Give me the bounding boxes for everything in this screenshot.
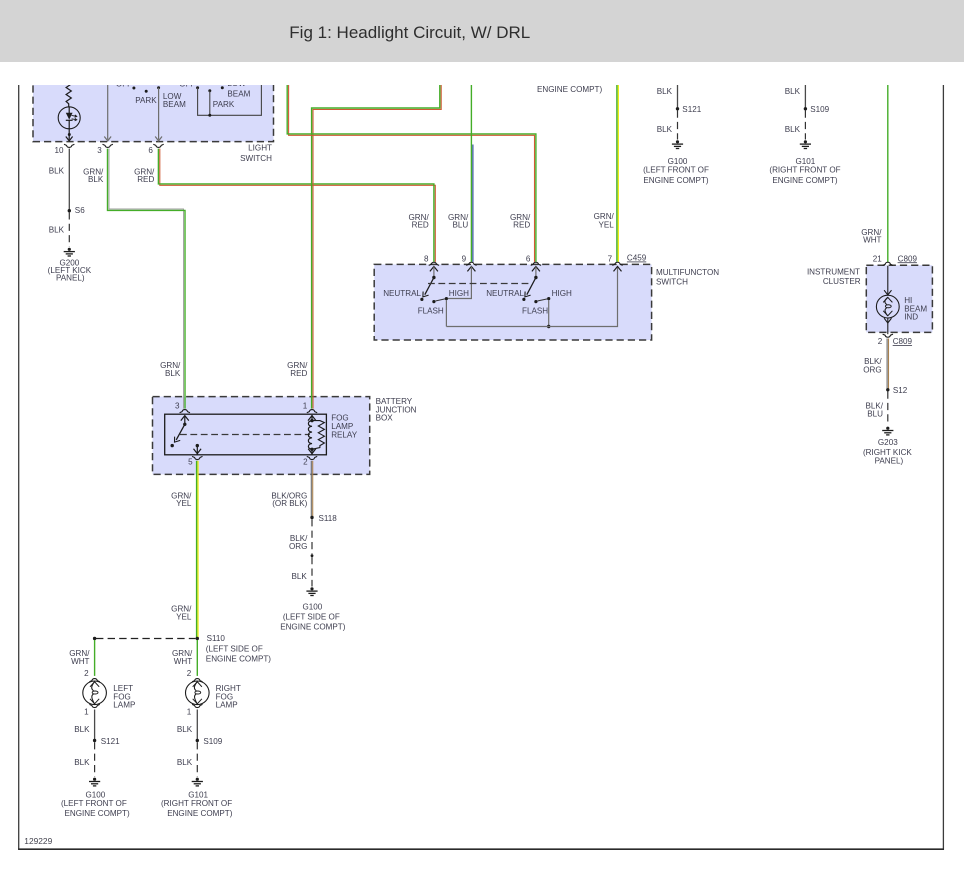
wire BLK dashed to G101 (196, 742, 198, 777)
pin 9 internal line to HIGH contact (467, 266, 475, 271)
svg-text:S118: S118 (319, 514, 338, 523)
svg-text:PANEL): PANEL) (875, 457, 904, 466)
splice S110 (196, 637, 199, 640)
svg-text:BEAM: BEAM (227, 90, 250, 99)
svg-text:ENGINE COMPT): ENGINE COMPT) (206, 654, 272, 663)
wire GRN/WHT to left fog lamp (94, 640, 96, 676)
relay output to pin 5 (196, 446, 198, 455)
wire BLK/ORG from instrument cluster pin 2 (886, 339, 888, 390)
wire BLK from left fog lamp (94, 710, 96, 740)
frame left border (18, 85, 20, 850)
multifunction switch pin 9 (466, 262, 476, 265)
splice S109 top (804, 107, 807, 110)
svg-text:PANEL): PANEL) (56, 273, 85, 282)
svg-text:1: 1 (303, 401, 308, 410)
svg-text:G101: G101 (795, 157, 815, 166)
svg-text:1: 1 (187, 707, 192, 716)
svg-text:PARK: PARK (135, 96, 157, 105)
svg-text:NEUTRAL: NEUTRAL (486, 289, 524, 298)
svg-text:21: 21 (873, 254, 883, 263)
svg-text:FLASH: FLASH (522, 306, 548, 315)
svg-text:SWITCH: SWITCH (656, 277, 688, 286)
svg-text:2: 2 (878, 337, 883, 346)
svg-text:ORG: ORG (289, 542, 307, 551)
svg-text:RED: RED (513, 221, 530, 230)
svg-text:2: 2 (303, 457, 308, 466)
light switch box (33, 78, 274, 142)
ground G100 (89, 778, 100, 786)
svg-text:CLUSTER: CLUSTER (823, 277, 861, 286)
multifunction switch pin 8 (429, 262, 439, 265)
battery junction box pin 2 (307, 456, 317, 459)
dimmer switch 8 internal (430, 266, 438, 271)
wire GRN/RED from top to battery junction box pin 1 (313, 78, 441, 409)
svg-text:BLK: BLK (165, 369, 181, 378)
svg-text:S121: S121 (101, 737, 120, 746)
svg-text:BLU: BLU (452, 221, 468, 230)
svg-text:ENGINE COMPT): ENGINE COMPT) (643, 176, 709, 185)
svg-text:C809: C809 (898, 254, 918, 263)
svg-text:3: 3 (175, 401, 180, 410)
svg-text:PARK: PARK (213, 100, 235, 109)
dashed jumper to left fog lamp branch (96, 638, 196, 640)
dimmer switch 6 internal (532, 266, 540, 271)
frame bottom border (18, 848, 944, 850)
svg-text:ENGINE COMPT): ENGINE COMPT) (64, 809, 130, 818)
svg-text:G100: G100 (302, 602, 322, 611)
svg-text:5: 5 (188, 457, 193, 466)
multifunction switch pin 6 (531, 262, 541, 265)
svg-text:(OR BLK): (OR BLK) (272, 499, 307, 508)
svg-text:C809: C809 (893, 337, 913, 346)
svg-text:BLU: BLU (867, 410, 883, 419)
svg-text:(LEFT SIDE OF: (LEFT SIDE OF (283, 613, 340, 622)
ground G101 (192, 778, 203, 786)
wire BLK/ORG dashed (311, 519, 313, 554)
high contact drop switch 8 (445, 300, 447, 326)
relay mechanical link dashed (180, 434, 310, 436)
svg-text:(RIGHT FRONT OF: (RIGHT FRONT OF (161, 799, 232, 808)
relay contact dots (171, 444, 174, 447)
splice S12 (886, 388, 889, 391)
light switch pin 3 internal line (107, 78, 109, 140)
svg-text:HIGH: HIGH (449, 289, 469, 298)
left fog lamp (83, 681, 107, 705)
splice S118 (310, 516, 313, 519)
svg-text:INSTRUMENT: INSTRUMENT (807, 267, 860, 276)
svg-text:LAMP: LAMP (331, 422, 353, 431)
instrument cluster box (866, 265, 932, 332)
svg-text:IND: IND (904, 313, 918, 322)
ground G100 left front engine compt (672, 140, 683, 148)
light switch pin 6 (153, 144, 163, 147)
svg-text:129229: 129229 (24, 836, 52, 846)
arrow to pin 10 (68, 135, 70, 140)
svg-text:YEL: YEL (598, 221, 614, 230)
wire GRN/WHT to right fog lamp (196, 640, 198, 676)
svg-text:7: 7 (608, 254, 613, 263)
svg-text:2: 2 (84, 669, 89, 678)
svg-text:LIGHT: LIGHT (248, 143, 272, 152)
svg-text:BLK: BLK (291, 572, 307, 581)
light switch pin 10 (64, 144, 74, 147)
high beam bus to pin 7 (446, 266, 617, 326)
multifunction switch pin 7 (612, 262, 622, 265)
right fog lamp (186, 681, 210, 705)
svg-text:S12: S12 (893, 386, 908, 395)
wire BLK dashed to ground (311, 557, 313, 586)
multifunction switch box (374, 264, 651, 340)
svg-text:3: 3 (97, 146, 102, 155)
wire GRN/YEL from relay pin 5 to S110 (197, 461, 199, 639)
wire BLK from light switch pin 10 (68, 149, 70, 210)
battery junction box pin 1 (307, 410, 317, 413)
wire GRN/RED from top to multifunction switch pin 6 (289, 78, 535, 262)
svg-text:LAMP: LAMP (216, 701, 238, 710)
svg-text:BLK: BLK (74, 758, 90, 767)
illumination LED lamp in light switch (58, 107, 80, 129)
resistor in light switch (66, 78, 71, 107)
relay resistor (312, 421, 324, 450)
wire BLK from right fog lamp (196, 710, 198, 740)
wire GRN/BLU to multifunction switch pin 9 (472, 145, 474, 262)
svg-text:9: 9 (462, 254, 467, 263)
wire BLK to S109 top (804, 78, 806, 108)
wire BLK dashed to G101 top (804, 111, 806, 140)
svg-text:BLK: BLK (177, 758, 193, 767)
svg-text:FLASH: FLASH (418, 306, 444, 315)
svg-text:BLK: BLK (88, 175, 104, 184)
svg-text:HIGH: HIGH (552, 289, 572, 298)
wire GRN/BLK from light switch pin 3 to battery junction box pin 3 (109, 149, 184, 409)
relay coil (308, 416, 316, 421)
svg-text:RED: RED (412, 221, 429, 230)
svg-text:YEL: YEL (176, 612, 192, 621)
battery junction box (153, 397, 370, 475)
battery junction box pin 3 (180, 410, 190, 413)
svg-text:RED: RED (137, 175, 154, 184)
svg-text:BLK: BLK (657, 125, 673, 134)
svg-text:WHT: WHT (71, 657, 89, 666)
svg-text:ORG: ORG (863, 365, 881, 374)
svg-text:(LEFT SIDE OF: (LEFT SIDE OF (206, 645, 263, 654)
svg-text:Fig 1: Headlight Circuit, W/ D: Fig 1: Headlight Circuit, W/ DRL (289, 23, 530, 42)
svg-text:BLK: BLK (49, 226, 65, 235)
svg-text:G100: G100 (668, 157, 688, 166)
mechanical link dashed (428, 283, 529, 285)
svg-text:(RIGHT FRONT OF: (RIGHT FRONT OF (769, 166, 840, 175)
svg-text:2: 2 (187, 669, 192, 678)
svg-text:ENGINE COMPT): ENGINE COMPT) (537, 85, 603, 94)
splice S6 (68, 209, 71, 212)
instrument cluster pin 2 (883, 334, 893, 337)
svg-text:ENGINE COMPT): ENGINE COMPT) (280, 622, 346, 631)
svg-text:BLK: BLK (49, 166, 65, 175)
svg-text:(LEFT FRONT OF: (LEFT FRONT OF (643, 166, 709, 175)
svg-text:S121: S121 (682, 105, 701, 114)
svg-text:RELAY: RELAY (331, 431, 358, 440)
high contact drop switch 6 (548, 300, 550, 326)
ground G100 left side engine compt (306, 587, 317, 595)
svg-text:BLK: BLK (657, 87, 673, 96)
splice S121 top (676, 107, 679, 110)
ground G200 (64, 248, 75, 256)
svg-text:1: 1 (84, 707, 89, 716)
svg-text:WHT: WHT (174, 657, 192, 666)
svg-text:S109: S109 (203, 737, 222, 746)
right fog lamp pin 1 (192, 704, 202, 707)
fog lamp relay box (165, 414, 327, 455)
svg-text:S6: S6 (75, 206, 85, 215)
svg-text:BOX: BOX (376, 414, 394, 423)
svg-text:6: 6 (148, 146, 153, 155)
svg-text:BLK: BLK (177, 725, 193, 734)
wire BLK/BLU dashed to G203 (887, 392, 889, 426)
svg-text:YEL: YEL (176, 499, 192, 508)
frame right border (942, 85, 944, 850)
high beam indicator lamp (887, 266, 889, 296)
svg-text:BEAM: BEAM (163, 100, 186, 109)
light switch pin 6 internal line (157, 86, 160, 89)
wire BLK dashed to G100 top (677, 111, 679, 140)
splice S121 (93, 739, 96, 742)
svg-text:MULTIFUNCTON: MULTIFUNCTON (656, 268, 719, 277)
svg-text:SWITCH: SWITCH (240, 154, 272, 163)
switch section 1 contact dots (132, 87, 135, 90)
svg-text:ENGINE COMPT): ENGINE COMPT) (167, 809, 233, 818)
svg-text:S109: S109 (810, 105, 829, 114)
svg-text:(LEFT FRONT OF: (LEFT FRONT OF (61, 799, 127, 808)
svg-text:BLK: BLK (785, 87, 801, 96)
relay switch (181, 416, 189, 421)
relay coil to pin 2 (311, 449, 313, 454)
wire BLK to S121 top (677, 78, 679, 108)
left fog lamp pin 1 (89, 704, 99, 707)
splice dot (311, 554, 314, 557)
svg-text:10: 10 (54, 146, 64, 155)
wire BLK/ORG from relay pin 2 (310, 461, 312, 517)
svg-text:G203: G203 (878, 438, 898, 447)
svg-text:S110: S110 (207, 634, 226, 643)
instrument cluster pin 21 (883, 262, 893, 265)
svg-text:6: 6 (526, 254, 531, 263)
battery junction box pin 5 (192, 456, 202, 459)
splice S109 (196, 739, 199, 742)
svg-text:BLK: BLK (74, 725, 90, 734)
wire GRN/WHT to instrument cluster pin 21 (887, 78, 889, 262)
svg-text:NEUTRAL: NEUTRAL (383, 289, 421, 298)
wire BLK dashed to G200 (68, 212, 70, 247)
junction dot below lamp (68, 133, 71, 136)
svg-text:LAMP: LAMP (113, 701, 135, 710)
svg-text:BLK: BLK (785, 125, 801, 134)
svg-text:C459: C459 (627, 254, 647, 263)
wire GRN/YEL to multifunction switch pin 7 (617, 78, 619, 262)
switch section 2 contact dots and feed bracket (196, 86, 199, 89)
svg-text:ENGINE COMPT): ENGINE COMPT) (772, 176, 838, 185)
svg-text:WHT: WHT (863, 236, 881, 245)
wire GRN/RED from light switch pin 6 to multifunction switch pin 8 (160, 149, 436, 262)
ground G203 (882, 427, 893, 435)
wire BLK dashed to G100 (94, 742, 96, 777)
ground G101 right front engine compt (800, 140, 811, 148)
svg-text:RED: RED (290, 369, 307, 378)
light switch pin 3 (103, 144, 113, 147)
svg-text:8: 8 (424, 254, 429, 263)
